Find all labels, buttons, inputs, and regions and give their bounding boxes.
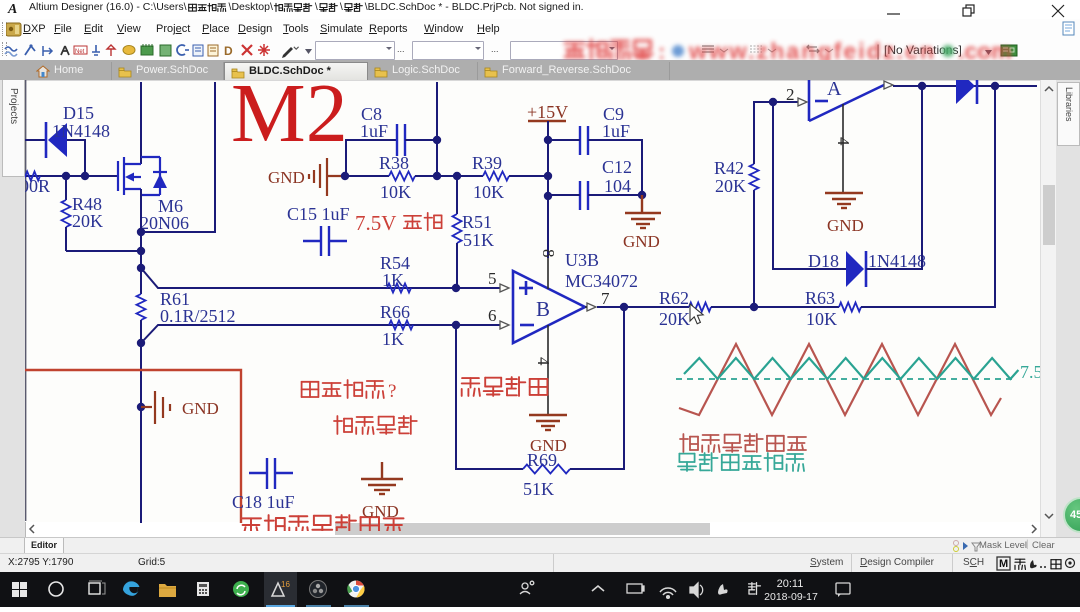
capacitor C15 [303, 226, 347, 256]
svg-text:D18: D18 [808, 251, 839, 271]
svg-text:1uF: 1uF [360, 121, 388, 141]
baseline dashed [676, 378, 1014, 380]
wire rail to +15V drop [509, 175, 548, 177]
teal annotation waveform label [678, 453, 804, 471]
ground GND (under U3A) [825, 193, 863, 208]
junction [918, 82, 926, 90]
junction [638, 191, 646, 199]
capacitor C9 [580, 126, 588, 155]
junction [452, 284, 460, 292]
capacitor C8 [397, 124, 405, 156]
svg-text:GND: GND [268, 168, 305, 187]
svg-text:2018-09-17: 2018-09-17 [764, 591, 818, 603]
svg-text:1K: 1K [382, 270, 404, 290]
svg-text:16: 16 [281, 580, 290, 589]
svg-text:2: 2 [786, 85, 795, 104]
svg-text:20K: 20K [72, 211, 103, 231]
resistor R61 [137, 294, 146, 320]
svg-text:7.5V: 7.5V [355, 211, 396, 235]
svg-text:10K: 10K [806, 309, 837, 329]
red highlight rectangle [25, 370, 241, 523]
wire rail mid [415, 175, 483, 177]
svg-text:R62: R62 [659, 288, 689, 308]
svg-text:6: 6 [488, 306, 497, 325]
wire U3A output top rail [893, 85, 1037, 87]
svg-text:A: A [827, 80, 842, 100]
svg-text:Net: Net [75, 49, 85, 55]
wire net-IN left to D15 [20, 139, 46, 141]
wire source vertical [140, 189, 142, 294]
junction [991, 82, 999, 90]
power port +15V [528, 120, 566, 122]
red annotation jiaoliu-ouhe [334, 416, 417, 434]
svg-text:R66: R66 [380, 302, 410, 322]
resistor R54 [387, 284, 411, 293]
junction [750, 303, 758, 311]
svg-text:20:11: 20:11 [777, 578, 804, 590]
pin 4 (U3A) [842, 104, 844, 193]
output arrow U3A [884, 81, 893, 89]
ground GND (C8 bar style) [309, 158, 345, 196]
wire R63 to top [861, 86, 995, 307]
svg-text:1N4148: 1N4148 [52, 121, 110, 141]
op-amp U3B [513, 250, 638, 343]
svg-text:R63: R63 [805, 288, 835, 308]
svg-text:51K: 51K [463, 230, 494, 250]
mouse cursor [690, 304, 703, 324]
wire C8 right [405, 139, 437, 141]
svg-text:104: 104 [604, 176, 631, 196]
svg-text:R51: R51 [462, 212, 492, 232]
wire drain vertical [140, 82, 142, 164]
svg-text:7: 7 [601, 289, 610, 308]
svg-text:00R: 00R [25, 176, 50, 196]
waveform teal rectified [684, 358, 1018, 379]
pin 2 [798, 98, 807, 106]
junction [769, 98, 777, 106]
svg-text:4: 4 [834, 137, 853, 146]
svg-text:+15V: +15V [527, 102, 568, 122]
junction [433, 136, 441, 144]
wire D18 cathode up [866, 86, 922, 269]
wire drop to D18 [773, 102, 846, 269]
red annotation chafen-fangda [462, 377, 548, 396]
junction [137, 339, 145, 347]
resistor R62 [689, 303, 711, 312]
junction [544, 136, 552, 144]
svg-text:1K: 1K [382, 329, 404, 349]
wire pin7 to R62 [597, 306, 689, 308]
ground GND (mid earth) [361, 462, 403, 494]
wire feedback right [570, 307, 624, 469]
svg-text:D: D [224, 44, 233, 58]
svg-text:GND: GND [827, 216, 864, 235]
resistor 100R (clipped) [18, 172, 40, 181]
junction [452, 321, 460, 329]
capacitor C12 [580, 181, 588, 210]
svg-text:GND: GND [182, 399, 219, 418]
wire rail y176 [20, 175, 118, 177]
svg-text:51K: 51K [523, 479, 554, 499]
resistor R69 [523, 465, 570, 474]
svg-text:U3B: U3B [565, 250, 599, 270]
svg-text:?: ? [388, 381, 396, 402]
red annotation waveform label [680, 434, 806, 452]
resistor R48 [62, 176, 104, 251]
ground GND (left power bar) [141, 391, 170, 424]
sheet edge [25, 80, 27, 521]
svg-text:MC34072: MC34072 [565, 271, 638, 291]
pin 4 [547, 325, 549, 415]
red annotation caizhi-rongliang [302, 380, 384, 398]
pin 7 output [587, 303, 596, 311]
junction [137, 403, 145, 411]
wire to pin5 row [141, 268, 500, 288]
svg-text:D15: D15 [63, 103, 94, 123]
junction [137, 264, 145, 272]
svg-text:5: 5 [488, 269, 497, 288]
svg-text:R38: R38 [379, 153, 409, 173]
svg-text:C15 1uF: C15 1uF [287, 204, 350, 224]
transistor M6 [118, 157, 167, 195]
wire R48 bottom return [66, 250, 141, 252]
resistor R51 [456, 176, 458, 214]
red annotation dianji bottom [241, 515, 403, 535]
junction [62, 172, 70, 180]
junction [137, 228, 145, 236]
svg-text:10K: 10K [380, 182, 411, 202]
svg-text:20N06: 20N06 [140, 213, 189, 233]
diode D15 [46, 103, 110, 158]
junction [341, 172, 349, 180]
svg-text:M2: M2 [231, 80, 348, 160]
svg-text:R69: R69 [527, 450, 557, 470]
junction [544, 192, 552, 200]
svg-text:R42: R42 [714, 158, 744, 178]
svg-text:20K: 20K [659, 309, 690, 329]
wire rail R38 [345, 175, 389, 177]
wire +15V vertical [547, 121, 549, 258]
wire top drop x437 [436, 82, 438, 176]
junction [620, 303, 628, 311]
wire to pin6 row [141, 325, 500, 343]
svg-text:GND: GND [362, 502, 399, 521]
junction [453, 172, 461, 180]
junction [137, 247, 145, 255]
resistor R66 [389, 321, 413, 330]
resistor R38 [389, 172, 415, 181]
svg-text:0.1R/2512: 0.1R/2512 [160, 306, 236, 326]
ground GND (under U3B) [529, 415, 567, 430]
op-amp U3A (clipped) [809, 78, 884, 121]
svg-text:R39: R39 [472, 153, 502, 173]
pin 6 [500, 321, 509, 329]
resistor R42 [753, 190, 755, 307]
diode on top rail [956, 68, 975, 104]
wire R62 to R63 [711, 306, 839, 308]
junction [433, 172, 441, 180]
wire C8 branch [346, 140, 397, 176]
junction [81, 172, 89, 180]
svg-text:4: 4 [534, 357, 553, 366]
junction [544, 172, 552, 180]
svg-text:C12: C12 [602, 157, 632, 177]
svg-text:C18 1uF: C18 1uF [232, 492, 295, 512]
wire top drop x215 [141, 82, 215, 232]
pin 8 [547, 258, 549, 289]
capacitor C18 [249, 458, 293, 489]
waveform red triangle [679, 344, 1001, 415]
svg-text:7.5: 7.5 [1020, 362, 1040, 382]
resistor R63 [839, 303, 861, 312]
svg-text:GND: GND [623, 232, 660, 251]
wire below R61 [140, 320, 142, 523]
diode D18 [846, 251, 864, 287]
ground GND (C12 earth) [625, 195, 661, 228]
wire feedback left [456, 325, 523, 469]
svg-text:20K: 20K [715, 176, 746, 196]
svg-text:8: 8 [539, 249, 558, 258]
svg-text:1uF: 1uF [602, 121, 630, 141]
svg-text:B: B [536, 297, 550, 321]
svg-text:M: M [999, 558, 1008, 570]
resistor R39 [483, 172, 509, 181]
svg-text:10K: 10K [473, 182, 504, 202]
wire D15 anode to node [67, 140, 85, 176]
pin 5 [500, 284, 509, 292]
